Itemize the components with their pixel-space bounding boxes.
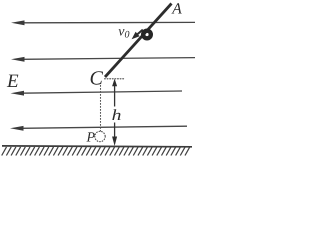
bead on rod xyxy=(143,31,151,39)
field line 4 xyxy=(10,126,187,131)
svg-text:E: E xyxy=(6,71,19,92)
dotted horizontal from C to h-arrow xyxy=(105,78,125,80)
rod A (inclined) xyxy=(105,4,172,78)
dotted vertical line C to P xyxy=(100,86,102,132)
velocity arrow v0 xyxy=(132,30,143,40)
svg-text:P: P xyxy=(86,131,96,146)
field line 3 xyxy=(11,91,183,96)
svg-text:C: C xyxy=(90,68,104,90)
field line 2 xyxy=(11,57,195,62)
ground hatching xyxy=(2,147,190,156)
svg-text:A: A xyxy=(171,1,182,18)
h dimension arrow (up head) xyxy=(112,79,117,107)
dotted circle at P xyxy=(95,131,105,141)
ground line xyxy=(2,145,192,148)
svg-text:v0: v0 xyxy=(118,25,129,41)
field line 1 (top, arrow left) xyxy=(11,20,195,25)
svg-text:h: h xyxy=(112,107,122,123)
h dimension arrow (down head) xyxy=(112,123,117,147)
